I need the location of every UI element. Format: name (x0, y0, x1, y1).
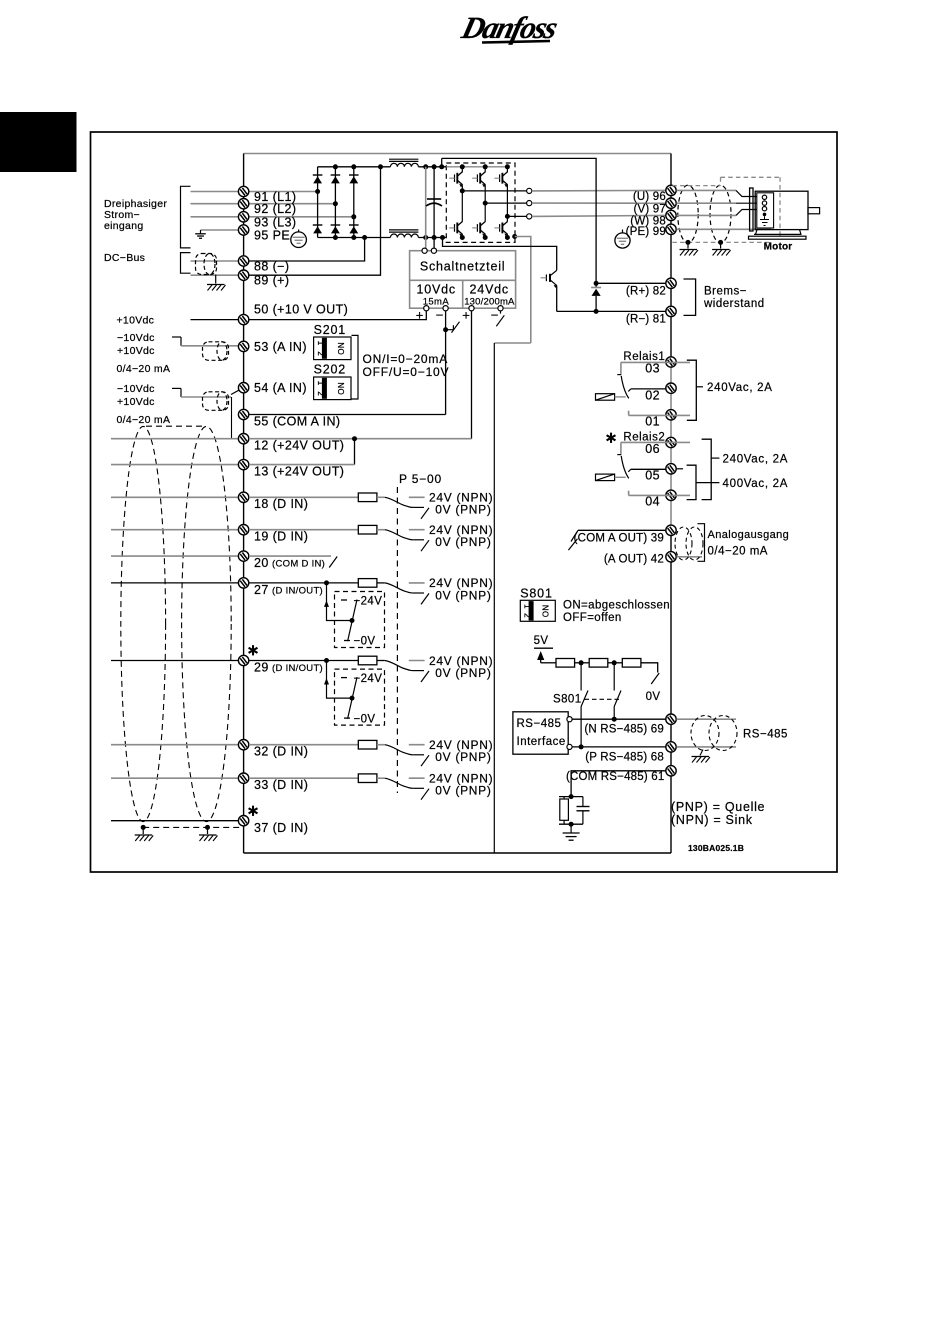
svg-text:54 (A IN): 54 (A IN) (254, 381, 307, 395)
svg-text:19 (D IN): 19 (D IN) (254, 530, 308, 544)
svg-text:50 (+10 V OUT): 50 (+10 V OUT) (254, 303, 348, 317)
svg-text:240Vac, 2A: 240Vac, 2A (723, 454, 789, 466)
svg-text:2: 2 (316, 391, 325, 396)
svg-text:S201: S201 (314, 323, 346, 337)
svg-text:(P RS−485) 68: (P RS−485) 68 (585, 751, 664, 763)
svg-text:0V (PNP): 0V (PNP) (435, 666, 491, 680)
svg-text:12 (+24V OUT): 12 (+24V OUT) (254, 439, 344, 453)
svg-text:+10Vdc: +10Vdc (117, 315, 155, 327)
svg-text:55 (COM A IN): 55 (COM A IN) (254, 415, 340, 429)
svg-text:ON: ON (337, 382, 346, 395)
svg-text:ON: ON (541, 604, 550, 617)
svg-text:0V (PNP): 0V (PNP) (435, 588, 491, 602)
svg-text:(COM D IN): (COM D IN) (272, 559, 325, 570)
svg-text:−0V: −0V (354, 636, 376, 648)
svg-text:+10Vdc: +10Vdc (117, 396, 155, 408)
svg-text:1: 1 (523, 604, 532, 609)
svg-text:(NPN) = Sink: (NPN) = Sink (671, 813, 753, 827)
svg-text:ON/I=0−20mA: ON/I=0−20mA (363, 352, 449, 366)
svg-text:(D IN/OUT): (D IN/OUT) (272, 586, 323, 597)
svg-text:DC−Bus: DC−Bus (104, 252, 145, 264)
svg-text:37 (D IN): 37 (D IN) (254, 821, 308, 835)
svg-text:0V (PNP): 0V (PNP) (435, 784, 491, 798)
svg-text:widerstand: widerstand (703, 298, 765, 310)
svg-text:06: 06 (645, 442, 660, 456)
svg-text:2: 2 (523, 613, 532, 618)
svg-text:S801: S801 (553, 694, 581, 706)
svg-text:P 5−00: P 5−00 (399, 472, 442, 486)
svg-text:240Vac, 2A: 240Vac, 2A (707, 382, 773, 394)
svg-text:24Vdc: 24Vdc (469, 282, 508, 296)
svg-text:(R−) 81: (R−) 81 (626, 313, 666, 325)
svg-text:18 (D IN): 18 (D IN) (254, 497, 308, 511)
svg-text:13 (+24V OUT): 13 (+24V OUT) (254, 465, 344, 479)
svg-text:01: 01 (645, 414, 660, 428)
svg-text:−24V: −24V (354, 595, 383, 607)
svg-text:−10Vdc: −10Vdc (117, 332, 155, 344)
svg-text:ON=abgeschlossen: ON=abgeschlossen (563, 600, 670, 612)
svg-text:RS−485: RS−485 (743, 729, 788, 741)
svg-text:(N RS−485) 69: (N RS−485) 69 (584, 724, 664, 736)
svg-text:33 (D IN): 33 (D IN) (254, 778, 308, 792)
svg-text:∗: ∗ (247, 803, 260, 820)
svg-text:(U) 96: (U) 96 (633, 191, 666, 203)
svg-text:0V (PNP): 0V (PNP) (435, 503, 491, 517)
svg-text:Motor: Motor (764, 242, 793, 253)
svg-text:1: 1 (316, 381, 325, 386)
svg-text:53 (A IN): 53 (A IN) (254, 340, 307, 354)
svg-text:0/4−20 mA: 0/4−20 mA (117, 363, 171, 375)
svg-text:03: 03 (645, 361, 660, 375)
svg-text:(COM A OUT) 39: (COM A OUT) 39 (574, 533, 664, 545)
svg-text:2: 2 (316, 351, 325, 356)
svg-text:92 (L2): 92 (L2) (254, 202, 296, 216)
svg-text:04: 04 (645, 495, 660, 509)
svg-text:(PE) 99: (PE) 99 (626, 226, 666, 238)
svg-text:(COM RS−485) 61: (COM RS−485) 61 (566, 771, 665, 783)
svg-text:Analogausgang: Analogausgang (708, 529, 790, 541)
svg-text:Interface: Interface (517, 736, 566, 748)
svg-text:0/4−20 mA: 0/4−20 mA (708, 546, 768, 558)
svg-text:RS−485: RS−485 (517, 718, 562, 730)
svg-text:5V: 5V (534, 635, 549, 647)
svg-text:29: 29 (254, 661, 269, 675)
svg-text:Brems−: Brems− (704, 286, 747, 298)
svg-text:95 PE: 95 PE (254, 229, 290, 243)
svg-text:(R+) 82: (R+) 82 (626, 285, 666, 297)
svg-text:93 (L3): 93 (L3) (254, 215, 296, 229)
svg-text:OFF/U=0−10V: OFF/U=0−10V (363, 365, 450, 379)
svg-text:(D IN/OUT): (D IN/OUT) (272, 663, 323, 674)
svg-text:0/4−20 mA: 0/4−20 mA (117, 414, 171, 426)
svg-text:02: 02 (645, 388, 660, 402)
svg-text:∗: ∗ (605, 430, 618, 447)
svg-text:0V (PNP): 0V (PNP) (435, 535, 491, 549)
svg-text:−24V: −24V (354, 673, 383, 685)
svg-text:Schaltnetzteil: Schaltnetzteil (420, 260, 506, 274)
svg-text:eingang: eingang (104, 220, 143, 232)
svg-text:+10Vdc: +10Vdc (117, 345, 155, 357)
svg-text:27: 27 (254, 583, 269, 597)
svg-text:+: + (462, 308, 470, 323)
svg-text:S202: S202 (314, 363, 346, 377)
svg-text:−10Vdc: −10Vdc (117, 383, 155, 395)
svg-text:(A OUT) 42: (A OUT) 42 (604, 554, 664, 566)
svg-text:ON: ON (337, 342, 346, 355)
svg-text:130BA025.1B: 130BA025.1B (688, 843, 744, 853)
svg-text:(V) 97: (V) 97 (633, 203, 666, 215)
svg-text:Relais1: Relais1 (623, 351, 665, 363)
svg-text:Danfoss: Danfoss (458, 10, 562, 44)
svg-text:−: − (491, 308, 499, 323)
svg-text:1: 1 (316, 341, 325, 346)
svg-text:05: 05 (645, 469, 660, 483)
svg-text:10Vdc: 10Vdc (416, 282, 455, 296)
svg-text:32 (D IN): 32 (D IN) (254, 745, 308, 759)
svg-text:∗: ∗ (247, 642, 260, 659)
svg-text:(PNP) = Quelle: (PNP) = Quelle (671, 800, 765, 814)
svg-text:OFF=offen: OFF=offen (563, 612, 622, 624)
svg-text:0V (PNP): 0V (PNP) (435, 750, 491, 764)
svg-text:0V: 0V (646, 691, 661, 703)
svg-text:400Vac, 2A: 400Vac, 2A (723, 478, 789, 490)
svg-text:−0V: −0V (354, 713, 376, 725)
svg-text:20: 20 (254, 556, 269, 570)
svg-text:S801: S801 (520, 587, 552, 601)
svg-text:−: − (436, 308, 444, 323)
